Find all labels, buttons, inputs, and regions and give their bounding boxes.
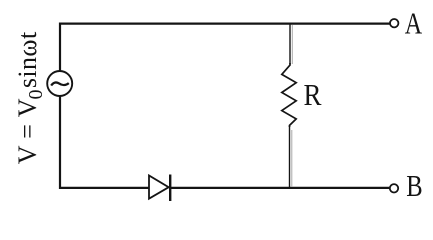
terminal A circle — [390, 19, 398, 27]
resistor R — [282, 63, 296, 127]
wire top horizontal — [59, 23, 390, 25]
svg-text:R: R — [304, 77, 322, 112]
wire resistor branch upper — [289, 24, 291, 64]
svg-text:B: B — [406, 168, 422, 203]
ac source V = V0 sin wt — [47, 71, 72, 96]
svg-text:A: A — [405, 6, 423, 41]
wire bottom right segment — [170, 187, 389, 189]
wire left vertical lower — [59, 97, 61, 190]
wire resistor branch lower — [289, 126, 291, 189]
diode D1 — [149, 176, 169, 199]
terminal B circle — [390, 184, 398, 192]
svg-text:V = V0sinωt: V = V0sinωt — [13, 31, 47, 164]
wire left vertical upper — [59, 23, 61, 72]
wire bottom left segment — [59, 187, 150, 189]
